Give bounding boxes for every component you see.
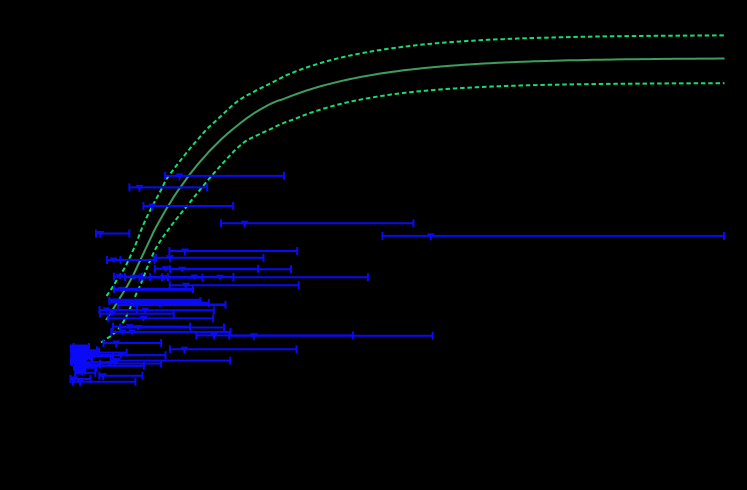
data point 11 [170,265,291,273]
data point 15 [150,273,233,281]
data point 7 [169,247,297,256]
data point 29 [196,331,353,340]
data point 22 [99,306,136,314]
data point 12 [114,273,142,281]
data point 34 [70,345,81,353]
data point 45 [72,358,115,366]
data point 38 [71,350,94,358]
data point 20 [134,299,209,307]
data point 21 [118,301,226,309]
data point 43 [111,357,231,365]
data point 5 [96,230,129,239]
extra cap on data point 8 [120,256,122,264]
data point 39 [72,352,113,360]
data point 42 [71,356,86,364]
data point 3 [143,202,233,211]
data point 35 [72,346,97,354]
data point 37 [86,349,127,357]
data point 17 [170,281,299,290]
extra bar y=355 [95,351,166,359]
data point 27 [120,324,224,332]
data point 28 [111,328,230,336]
solid best-fit curve [106,59,725,321]
data point 23 [137,306,214,314]
data point 16 [168,273,368,281]
data point 44 [70,357,83,365]
data point 31 [104,339,162,348]
data point 10 [155,265,258,273]
data point 51 [99,372,143,381]
data point 32 [170,345,297,354]
extra bar in thick band y=302 [120,300,190,306]
data point 33 [74,343,89,351]
data point 14 [139,274,202,282]
lower dashed confidence curve [101,83,725,342]
data point 25 [108,314,213,322]
data point 46 [100,360,161,368]
data point 19 [109,297,200,305]
data point 48 [80,362,144,370]
cluster blob fill [72,345,90,375]
data point 30 [229,332,432,341]
data point 18 [114,285,193,293]
data point 53 [73,378,136,387]
upper dashed confidence curve [107,35,725,296]
data point 2 [129,183,207,192]
data point 9 [156,254,264,262]
data point 8 [107,256,155,264]
extra marker on data point 28 [128,330,136,336]
data point 47 [78,361,100,369]
data point 49 [77,364,96,372]
data point 4 [221,219,413,228]
data point 24 [100,310,174,318]
data point 13 [125,273,162,281]
data point 36 [80,348,99,356]
data point 26 [113,323,190,331]
data point 41 [75,354,92,362]
data point 6 [383,232,725,241]
data point 1 [165,172,284,181]
data point 40 [73,353,90,361]
data point 52 [70,375,90,383]
data point 50 [75,369,95,377]
